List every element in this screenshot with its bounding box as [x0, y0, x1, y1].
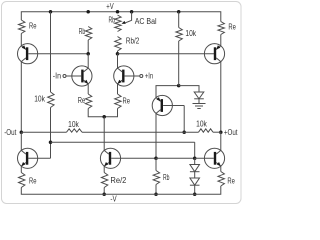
node dot top rail / wiper: [130, 10, 134, 14]
wire D2 to rail: [194, 185, 196, 194]
wire -In to Q2 base: [66, 75, 81, 77]
resistor Re top-left: [19, 20, 25, 34]
resistor Re Q8: [19, 173, 25, 188]
resistor Re Q3 emitter: [115, 94, 121, 109]
resistor 10k left column: [48, 92, 54, 108]
wire Q1 base: [28, 53, 88, 55]
node dot Q2 collector / Q1 base: [86, 52, 90, 56]
transistor Q6: [204, 44, 224, 64]
svg-text:Rb: Rb: [163, 173, 170, 182]
wire emitter row to diode: [179, 86, 199, 92]
label Re Q5: [227, 177, 235, 186]
label +Out: [224, 128, 238, 137]
wire 10k-right top: [178, 12, 180, 28]
svg-text:Rb/2: Rb/2: [126, 37, 140, 46]
label -V: [110, 195, 117, 204]
label Re Q8: [29, 177, 37, 186]
transistor Q4: [152, 95, 172, 115]
wire Q5 base: [195, 157, 214, 159]
wire Re/2 to rail: [103, 188, 105, 195]
resistor Re Q5: [218, 172, 224, 187]
svg-text:-V: -V: [110, 195, 117, 204]
wire Rb/2 bottom: [117, 51, 119, 54]
node dot top rail / 10k-right: [177, 10, 181, 14]
wire Q6 collector to +Out: [220, 62, 222, 133]
transistor Q1: [18, 44, 38, 64]
node dot Rb mid rail: [154, 192, 158, 196]
node dot Rb mid top: [154, 157, 158, 161]
node dot diodes rail: [193, 192, 197, 196]
resistor Rb pot (AC Bal): [115, 15, 121, 32]
wire diode to ground: [198, 99, 200, 104]
svg-text:+Out: +Out: [224, 128, 238, 137]
wire bias node to diodes: [156, 157, 195, 159]
wire 10k-left top: [50, 12, 52, 92]
wire Q8 emitter: [20, 166, 22, 172]
transistor Q7: [100, 148, 120, 168]
label Re/2: [110, 176, 127, 185]
wire emitter bracket: [88, 109, 117, 117]
wire between diodes: [194, 172, 196, 178]
wire 10k-left to line B: [50, 108, 52, 159]
frame border: [2, 2, 242, 204]
node -Out: [20, 130, 24, 134]
label Re Q3: [123, 96, 131, 105]
transistor Q8: [18, 148, 38, 168]
wire +V top rail: [21, 12, 221, 22]
label -Out: [4, 128, 17, 137]
wire Rb mid bottom: [155, 185, 157, 195]
resistor 10k horizontal left: [67, 129, 83, 132]
wire Q4 emitter up: [156, 86, 179, 98]
resistor Rb left: [85, 27, 91, 41]
diode D1: [190, 165, 200, 172]
wire Q4 collector down: [155, 113, 157, 158]
wire Q2 collector: [87, 54, 89, 68]
svg-text:Re: Re: [78, 96, 86, 105]
resistor 10k horizontal right: [199, 129, 214, 132]
svg-text:Re: Re: [227, 177, 235, 186]
wire tail down: [103, 117, 105, 151]
wire Q7 base: [111, 157, 156, 159]
svg-text:10k: 10k: [196, 120, 208, 129]
svg-text:10k: 10k: [185, 29, 197, 38]
label +V: [106, 2, 114, 11]
transistor Q2: [72, 66, 92, 86]
svg-text:AC Bal: AC Bal: [135, 17, 157, 26]
wire Q3 emitter: [117, 84, 119, 94]
label 10k horizontal right: [196, 120, 208, 129]
label Rb pot: [109, 16, 116, 25]
wiper AC Bal arrow: [122, 12, 132, 24]
node dot line B left end: [49, 140, 53, 144]
wire Q2 emitter: [87, 84, 89, 94]
node dot top rail / 10k-left: [49, 10, 53, 14]
wire Q8 base: [28, 157, 50, 159]
label 10k right column: [185, 29, 197, 38]
wire Q4 base riser: [183, 106, 185, 133]
svg-text:Re/2: Re/2: [110, 176, 127, 185]
label 10k horizontal left: [68, 120, 80, 129]
label Rb left: [79, 27, 86, 36]
wire +Out to Q5 collector: [220, 132, 222, 150]
terminal +In: [140, 75, 143, 78]
svg-text:10k: 10k: [68, 120, 80, 129]
svg-text:Re: Re: [123, 96, 131, 105]
diode D2: [190, 178, 200, 185]
svg-text:Rb: Rb: [109, 16, 116, 25]
label Re Q2: [78, 96, 86, 105]
wire Q1 collector to -Out: [20, 62, 22, 133]
label Re top-right: [228, 22, 236, 31]
svg-text:Re: Re: [29, 177, 37, 186]
node +Out: [219, 130, 223, 134]
wire 10k-right bottom: [178, 41, 180, 86]
wire Q3 collector: [117, 54, 119, 68]
wire Re to Q1 emitter: [20, 34, 22, 46]
label Re top-left: [29, 21, 37, 30]
transistor Q3: [114, 66, 134, 86]
svg-text:10k: 10k: [34, 94, 46, 103]
node dot tail: [102, 115, 106, 119]
svg-text:Re: Re: [228, 22, 236, 31]
wire -V rail: [21, 186, 221, 194]
svg-text:Rb: Rb: [79, 27, 86, 36]
wire Rb mid top: [155, 158, 157, 170]
node dot top rail / pot Rb: [116, 10, 120, 14]
resistor 10k right column: [176, 28, 182, 42]
wire line B: [51, 141, 195, 143]
label 10k left column: [34, 94, 46, 103]
node dot Q3 collector / Q6 base: [116, 52, 120, 56]
label Rb mid: [163, 173, 170, 182]
transistor Q5: [204, 148, 224, 168]
wire -Out to Q8 collector: [20, 132, 22, 150]
svg-text:+In: +In: [145, 71, 153, 80]
node dot diodes top: [193, 157, 197, 161]
resistor Re/2: [101, 173, 107, 188]
svg-text:-In: -In: [53, 71, 61, 80]
label -In: [53, 71, 61, 80]
label +In: [145, 71, 153, 80]
node dot top rail / Rb-left: [86, 10, 90, 14]
ground: [193, 104, 206, 109]
resistor Rb mid: [153, 171, 159, 185]
resistor Rb/2: [115, 37, 121, 52]
resistor Re top-right: [218, 22, 224, 35]
svg-text:-Out: -Out: [4, 128, 17, 137]
terminal -In: [63, 75, 66, 78]
label Rb/2: [126, 37, 140, 46]
wire line A mid segment: [82, 131, 199, 133]
diode D3 to ground: [194, 92, 204, 99]
node dot Q4 base on line A: [182, 130, 186, 134]
node dot 10k-right bottom: [177, 84, 181, 88]
wire line A left segment: [21, 131, 66, 133]
svg-text:Re: Re: [29, 21, 37, 30]
resistor Re Q2 emitter: [85, 94, 91, 109]
wire Q7 emitter: [103, 166, 105, 172]
wire Q6 base line: [118, 53, 215, 55]
wire Q3 base to +In: [125, 75, 140, 77]
wire Rb-left bottom: [87, 40, 89, 54]
wire line A right segment: [213, 131, 221, 133]
wire Re to Q6 emitter: [220, 35, 222, 46]
wire Q5 emitter: [220, 166, 222, 171]
label AC Bal: [135, 17, 157, 26]
wire line B down to bias node: [194, 142, 196, 158]
node dot Re/2 rail: [102, 192, 106, 196]
svg-text:+V: +V: [106, 2, 114, 11]
wire Q4 base: [163, 105, 184, 107]
wire diode column top: [194, 158, 196, 164]
